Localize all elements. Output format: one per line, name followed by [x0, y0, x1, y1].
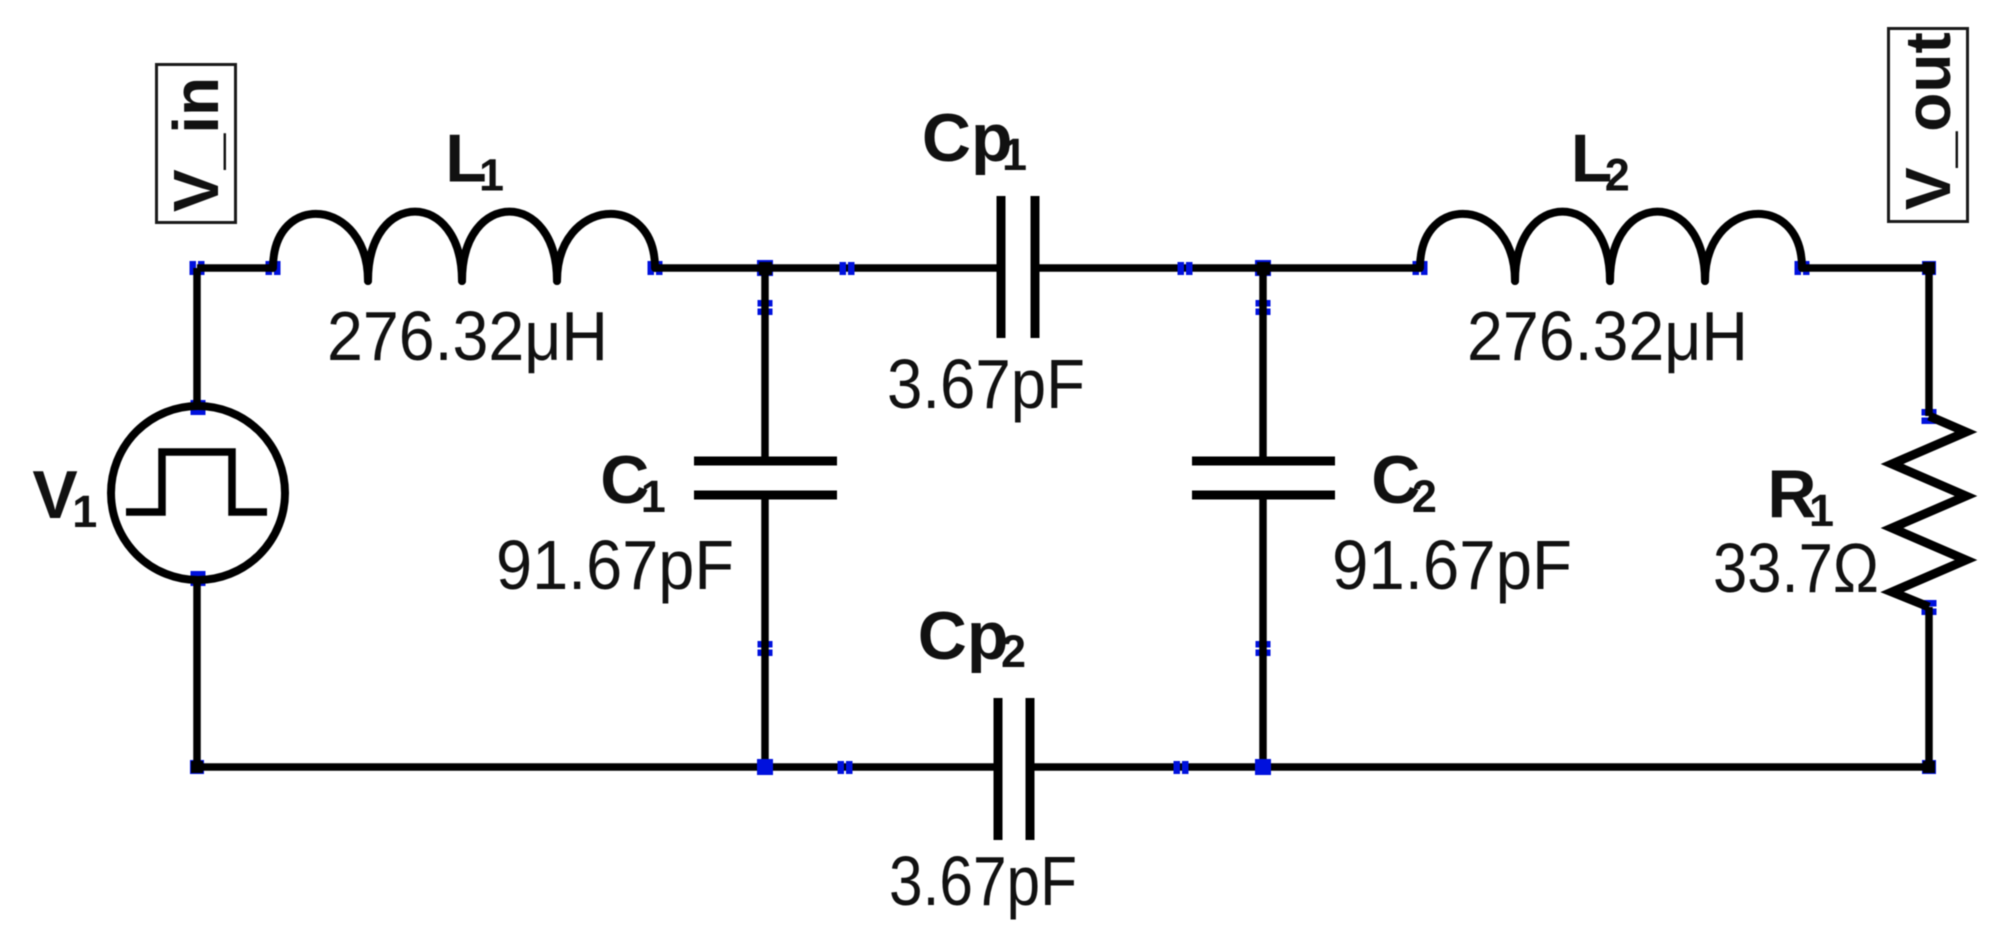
svg-text:2: 2 [1412, 471, 1437, 522]
svg-text:33.7Ω: 33.7Ω [1713, 528, 1879, 607]
svg-text:3.67pF: 3.67pF [887, 345, 1085, 423]
svg-text:276.32μH: 276.32μH [1467, 297, 1748, 375]
svg-text:2: 2 [1001, 626, 1026, 677]
svg-text:91.67pF: 91.67pF [496, 526, 734, 604]
svg-text:V_in: V_in [160, 77, 232, 212]
svg-text:V_out: V_out [1892, 32, 1964, 210]
svg-text:1: 1 [1002, 129, 1027, 180]
svg-text:Cp: Cp [918, 598, 1009, 674]
svg-text:Cp: Cp [922, 100, 1013, 176]
svg-text:91.67pF: 91.67pF [1332, 526, 1572, 604]
svg-text:1: 1 [72, 486, 97, 537]
svg-text:276.32μH: 276.32μH [327, 297, 608, 375]
svg-text:2: 2 [1605, 150, 1630, 201]
svg-text:V: V [32, 457, 77, 533]
svg-text:1: 1 [479, 150, 504, 201]
svg-text:3.67pF: 3.67pF [889, 842, 1077, 920]
svg-text:1: 1 [641, 471, 666, 522]
